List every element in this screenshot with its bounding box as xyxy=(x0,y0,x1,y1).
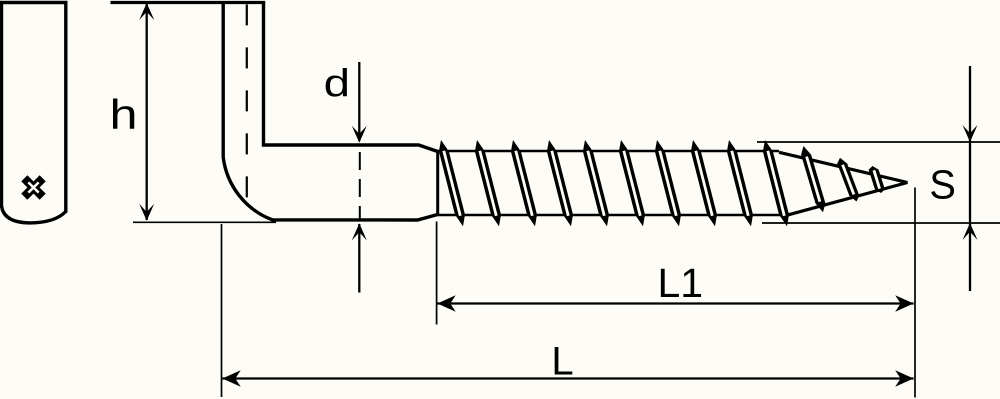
dimension L1: right arrowhead xyxy=(895,295,913,311)
thread start vertical line xyxy=(436,152,439,215)
dimension d: dashed centerline in shank xyxy=(359,152,361,220)
dimension L1: left arrowhead xyxy=(437,295,455,311)
thread turn 3 crest band xyxy=(511,140,537,226)
thread turn 2 flank slit xyxy=(480,151,497,216)
thread turn 9 flank slit xyxy=(732,151,749,216)
thread turn 6 crest band xyxy=(619,140,645,226)
thread turn 1 flank slit xyxy=(444,151,461,216)
thread turn 10 crest band xyxy=(763,140,789,226)
thread turn 12 flank slit xyxy=(843,165,854,195)
dimension L: left extension line xyxy=(221,224,223,397)
thread turn 7 crest band xyxy=(655,140,681,226)
dimension S: upper arrowhead xyxy=(963,125,978,142)
dimension d: upper arrow line xyxy=(358,62,360,141)
thread turn 1 crest band xyxy=(439,140,465,226)
thread turn 7 flank slit xyxy=(660,151,677,216)
svg-text:L: L xyxy=(551,340,573,384)
end view body (rounded slotted plug, left) xyxy=(2,3,66,223)
dimension S: bottom extension line xyxy=(762,222,1000,224)
dimension d: upper arrowhead xyxy=(352,126,367,143)
dimension L1: left extension line xyxy=(436,222,438,325)
thread turn 4 crest band xyxy=(547,140,573,226)
dimension L: left arrowhead xyxy=(222,370,240,386)
thread turn 13 crest band xyxy=(869,166,885,193)
thread turn 9 crest band xyxy=(727,140,753,226)
thread root bottom line xyxy=(438,214,787,217)
cross recess (x) xyxy=(15,169,52,206)
thread turn 8 flank slit xyxy=(696,151,713,216)
thread turn 11 flank slit xyxy=(807,157,820,202)
end view top edge xyxy=(0,1,68,4)
thread turn 2 crest band xyxy=(475,140,501,226)
thread turn 5 flank slit xyxy=(588,151,605,216)
thread turn 11 crest band xyxy=(801,146,825,212)
svg-text:d: d xyxy=(324,62,350,105)
point cone bottom edge xyxy=(787,183,908,216)
point cone top edge xyxy=(779,152,908,182)
dimension h: arrow line xyxy=(146,4,148,220)
thread root top line xyxy=(438,150,779,153)
dimension h: top arrowhead xyxy=(139,3,154,20)
shank dashed centerline (vertical bar) xyxy=(246,4,248,201)
dimension L: line xyxy=(222,377,913,379)
svg-text:h: h xyxy=(109,91,137,138)
hook shank right edge, inner corner, top edge with taper xyxy=(264,3,438,152)
dimension d: lower arrow line xyxy=(358,224,360,293)
dimension h: bottom arrowhead xyxy=(139,204,154,221)
hook top edge + h top extension line xyxy=(111,1,266,4)
svg-text:S: S xyxy=(929,161,956,208)
hook shank left edge and bend outer curve and bottom edge with taper xyxy=(223,3,438,221)
thread turn 5 crest band xyxy=(583,140,609,226)
dimension L: right arrowhead xyxy=(895,370,913,386)
dimension L1/L: right extension line xyxy=(914,188,916,398)
dimension S: arrow line xyxy=(969,66,971,291)
svg-text:L1: L1 xyxy=(657,260,703,306)
dimension d: lower arrowhead xyxy=(352,223,367,240)
dimension L1: line xyxy=(437,302,913,304)
thread turn 10 flank slit xyxy=(768,151,785,216)
thread turn 4 flank slit xyxy=(552,151,569,216)
thread turn 12 crest band xyxy=(837,158,859,202)
dimension S: lower arrowhead xyxy=(963,223,978,240)
dimension S: top extension line xyxy=(757,141,1000,143)
thread turn 3 flank slit xyxy=(516,151,533,216)
dimension h: bottom extension line xyxy=(133,221,276,223)
thread turn 13 flank slit xyxy=(874,170,880,188)
thread turn 6 flank slit xyxy=(624,151,641,216)
thread turn 8 crest band xyxy=(691,140,717,226)
